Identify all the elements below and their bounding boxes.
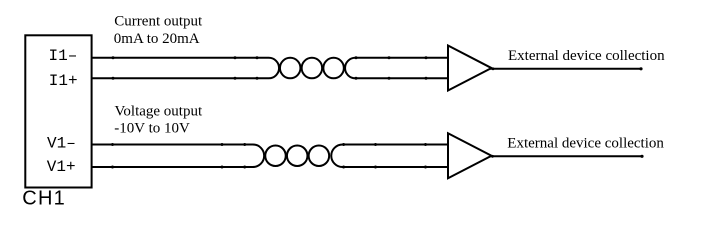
svg-text:CH1: CH1 <box>22 188 66 210</box>
svg-text:I1–: I1– <box>49 47 78 65</box>
svg-text:External device collection: External device collection <box>507 136 664 152</box>
svg-text:-10V to 10V: -10V to 10V <box>114 121 190 137</box>
svg-text:V1–: V1– <box>47 134 76 152</box>
svg-text:0mA to 20mA: 0mA to 20mA <box>114 31 200 47</box>
svg-text:I1+: I1+ <box>49 72 78 90</box>
svg-text:V1+: V1+ <box>47 158 76 176</box>
svg-text:Current output: Current output <box>114 14 203 30</box>
svg-text:External device collection: External device collection <box>508 48 665 64</box>
svg-text:Voltage output: Voltage output <box>115 103 203 119</box>
